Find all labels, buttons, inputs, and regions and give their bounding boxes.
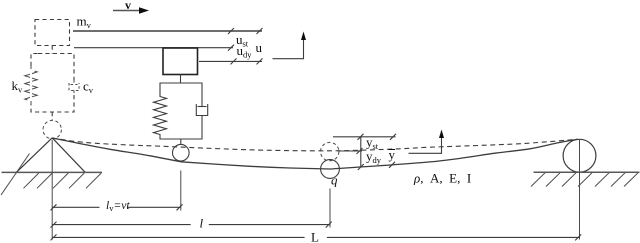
dimension line L: [51, 234, 582, 240]
suspension damper (solid): [196, 104, 207, 116]
static displacement line u_st: [74, 45, 234, 51]
wheel (solid, on beam): [173, 139, 190, 161]
suspension spring (solid): [154, 95, 167, 137]
solid circle (load q on deflected beam): [321, 160, 340, 179]
reference line for beam deflection: [333, 134, 396, 140]
label y_dy: [366, 149, 382, 165]
bogie frame (solid): [160, 83, 202, 139]
extension line below load q (x=330): [329, 189, 331, 228]
dynamic displacement line u_dy: [199, 58, 263, 64]
svg-text:ydy: ydy: [366, 149, 382, 165]
label rho, A, E, I (beam properties): [413, 171, 471, 186]
label L: [311, 230, 319, 243]
vertical measure line at y dimensions: [358, 137, 364, 170]
positive u direction arrow: [273, 32, 307, 59]
svg-text:cv: cv: [83, 79, 94, 95]
tick on deflected curve for y-bar: [389, 162, 395, 168]
svg-text:u: u: [256, 40, 263, 55]
label l: [200, 216, 204, 231]
label u_dy: [237, 43, 253, 59]
extension line at left support (x=52): [51, 140, 53, 240]
ground hatching (left, with long first stroke): [1, 154, 101, 196]
label m_v: [77, 14, 92, 30]
dashed circle (load q on undeformed axis): [321, 142, 339, 160]
label q: [331, 173, 338, 188]
stem mass box to bogie: [180, 75, 182, 84]
label u (total): [256, 40, 263, 55]
pinned support triangle (left): [16, 138, 85, 173]
label c_v: [83, 79, 94, 95]
roller support circle (right): [563, 139, 596, 172]
velocity arrow v: [113, 7, 149, 13]
label y_st: [366, 135, 379, 151]
reference line from m_v box (upper): [73, 28, 263, 34]
label v: [125, 0, 131, 12]
label k_v: [12, 78, 24, 94]
dashed suspension spring k_v: [25, 66, 37, 105]
label u_st: [236, 32, 249, 48]
svg-text:ρ, A, E, I: ρ, A, E, I: [413, 171, 471, 186]
dashed stem frame-to-wheel: [51, 112, 53, 120]
dashed wheel at left support: [43, 120, 61, 138]
sprung mass box (vehicle body): [163, 48, 198, 75]
svg-text:v: v: [125, 0, 131, 12]
dashed suspension damper c_v: [69, 80, 79, 95]
positive y direction arrow: [409, 130, 445, 154]
svg-text:lv=vt: lv=vt: [106, 200, 130, 213]
svg-text:l: l: [200, 216, 204, 231]
svg-text:mv: mv: [77, 14, 92, 30]
dimension line l_v = vt: [51, 204, 183, 210]
ground line (left support): [2, 171, 103, 173]
beam undeformed axis (dashed curve): [52, 138, 577, 151]
ground line (right support): [534, 171, 640, 173]
ground hatching (right): [531, 173, 638, 187]
dashed mass box m_v (vehicle at t=0): [35, 20, 70, 46]
dashed connector stem (m_v box to bogie frame): [51, 46, 53, 54]
extension line below wheel (x=181): [180, 171, 182, 211]
static deflection level line y_st: [338, 148, 363, 154]
svg-text:kv: kv: [12, 78, 24, 94]
label y-bar (total deflection): [389, 147, 396, 162]
beam deflected shape (solid curve): [52, 138, 577, 169]
dashed bogie frame box: [31, 54, 74, 113]
extension line at right support (x=578): [579, 139, 581, 239]
label l_v = vt: [106, 200, 130, 213]
dimension line l: [51, 222, 332, 228]
svg-text:q: q: [331, 173, 338, 188]
svg-text:L: L: [311, 230, 319, 243]
